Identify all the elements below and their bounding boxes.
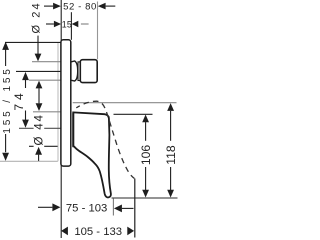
wire extension plate top y=42.4: [5, 41, 61, 43]
wire extension knob bottom y=80.2 gray: [29, 79, 61, 81]
dimension 75 - 103: [38, 202, 134, 214]
spout connector sleeve: [71, 61, 78, 81]
handle hub front edge: [72, 113, 74, 146]
svg-text:75 - 103: 75 - 103: [66, 202, 107, 214]
svg-text:118: 118: [164, 145, 178, 165]
extension line right bottom x=113.4 gray: [112, 199, 114, 216]
connector end piece: [80, 60, 97, 83]
svg-text:105 - 133: 105 - 133: [74, 226, 122, 238]
svg-text:106: 106: [139, 145, 153, 166]
dimension 106: [139, 115, 153, 198]
wire extension line plate front x=71.4: [70, 12, 72, 40]
wire extension knob center y=71.4: [16, 70, 61, 72]
dimension 155 / 155: [2, 42, 13, 161]
dimension 52-80: [44, 2, 115, 13]
dimension 118: [164, 103, 178, 197]
wire extension line knob end x=97.5 gray: [97, 2, 99, 60]
svg-text:74: 74: [12, 89, 26, 110]
wire extension hub center y=128.3: [19, 127, 61, 129]
wire extension hub bottom y=146.3: [29, 145, 58, 147]
extension line far right bottom x=134.8: [134, 179, 136, 238]
connector ring groove: [78, 62, 80, 81]
svg-text:15: 15: [62, 19, 72, 29]
escutcheon plate side view: [61, 40, 71, 166]
dimension 105 - 133: [61, 226, 134, 238]
svg-text:Ø 24: Ø 24: [31, 1, 43, 33]
wire wall surface vertical line: [57, 42, 59, 161]
wire extension hub top y=111.8 gray: [33, 111, 61, 113]
label Ø 24 with leader arrow: [31, 1, 43, 61]
dimension 15: [46, 19, 89, 29]
svg-text:Ø 44: Ø 44: [34, 113, 46, 145]
arrow stack between knob bottom and hub top: [36, 81, 43, 111]
reference line bottom right y=198: [112, 197, 178, 199]
label Ø 44 with arrow: [34, 113, 46, 161]
handle lever solid outline: [73, 112, 111, 197]
extension line 118 top y=102.7 gray: [73, 102, 177, 104]
dashed swung handle arc: [76, 101, 134, 178]
dimension 74: [12, 72, 29, 128]
wire extension knob top y=61.7 gray: [32, 61, 61, 63]
svg-text:52 - 80: 52 - 80: [63, 2, 97, 13]
wire wall bottom horizontal gray line: [0, 160, 58, 162]
wire left extension line x=61.2 full height: [60, 0, 62, 238]
extension line 106 top y=114.3: [114, 113, 153, 115]
